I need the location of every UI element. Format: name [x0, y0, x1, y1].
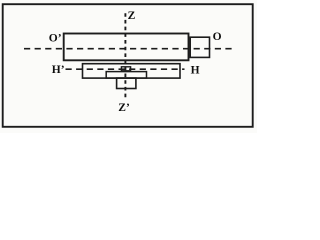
axis O'-O (horizontal dashed): [24, 48, 234, 50]
svg-text:H’: H’: [52, 64, 65, 76]
outer border frame: [3, 4, 253, 127]
inner rect B: [106, 72, 146, 79]
bottom nub rect C: [117, 78, 136, 88]
center tab: [121, 67, 130, 71]
svg-text:Z: Z: [128, 10, 136, 22]
svg-text:O’: O’: [49, 32, 62, 44]
flange rect A: [83, 64, 181, 78]
svg-text:Z’: Z’: [118, 102, 130, 114]
svg-text:O: O: [213, 31, 222, 43]
right end square: [190, 37, 209, 57]
axis H'-H (horizontal dashed): [66, 68, 185, 70]
svg-text:H: H: [191, 64, 200, 76]
axis Z-Z' (vertical dashed): [124, 13, 126, 97]
main body rectangle: [64, 34, 189, 61]
